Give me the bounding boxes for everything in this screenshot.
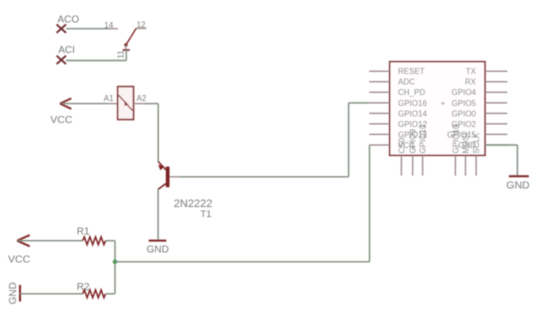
wire GND pin to ground horizontal — [485, 144, 517, 146]
ground symbol (transistor) — [149, 240, 167, 242]
svg-text:12: 12 — [137, 21, 146, 30]
relay K1 pin A1 — [107, 103, 118, 105]
svg-text:+: + — [441, 99, 446, 108]
svg-text:2N2222: 2N2222 — [174, 198, 213, 210]
svg-text:GPIO10: GPIO10 — [419, 124, 428, 153]
module U1 bottom pin stubs — [401, 155, 476, 175]
module U1 left pin stubs — [369, 71, 390, 145]
relay K1 coil diagonal — [119, 95, 133, 110]
connector pin X1 (ACO) — [57, 24, 66, 32]
svg-text:11: 11 — [117, 50, 126, 59]
svg-text:R1: R1 — [77, 227, 90, 238]
wire net ACI horizontal — [66, 60, 126, 62]
wire to GPIO16 pin — [349, 102, 370, 104]
svg-text:MOSI: MOSI — [462, 133, 471, 153]
svg-text:GND: GND — [8, 282, 19, 304]
wire net ACO — [66, 28, 107, 30]
wire VCC to R1 — [18, 240, 83, 242]
resistor R1 zigzag — [83, 237, 106, 245]
switch S1 common stub — [125, 45, 127, 50]
svg-text:GPIO5: GPIO5 — [452, 99, 477, 108]
transistor T1 collector lead — [158, 162, 166, 170]
wire base to GPIO16 horizontal — [180, 176, 349, 178]
wire R1 to node — [106, 240, 115, 242]
relay K1 pin A2 — [134, 103, 144, 105]
svg-text:GPIO10: GPIO10 — [451, 124, 460, 153]
svg-text:GND: GND — [506, 179, 530, 191]
wire net ACI vertical — [125, 50, 127, 61]
svg-text:VCC: VCC — [8, 253, 31, 265]
svg-text:ADC: ADC — [398, 78, 415, 87]
wire R2 to node — [106, 293, 115, 295]
relay K1 coil arrow — [124, 101, 128, 105]
wire A2 to collector vertical — [157, 104, 159, 162]
switch S1 pin 14 — [107, 28, 118, 30]
wire base to GPIO16 vertical — [348, 103, 350, 177]
switch S1 pivot junction — [124, 43, 127, 46]
ground symbol (module) — [509, 175, 529, 177]
wire node to VCC pin vertical — [369, 145, 371, 262]
supply VCC arrow (relay) — [60, 98, 71, 109]
wire emitter to ground — [157, 189, 159, 240]
switch S1 common T-bar — [123, 49, 130, 51]
module U1 box — [390, 62, 485, 156]
svg-text:GND: GND — [147, 245, 169, 256]
wire GND pin to ground vertical — [516, 145, 518, 176]
wire node vertical — [114, 241, 116, 294]
switch S1 arm — [126, 29, 136, 46]
wire GND to R2 — [20, 293, 83, 295]
svg-text:GPIO14: GPIO14 — [398, 109, 427, 118]
switch S1 pin 12 — [136, 27, 147, 29]
svg-text:CS0: CS0 — [397, 137, 406, 153]
ground symbol (divider, rotated) — [19, 285, 21, 302]
wire VCC to relay A1 — [62, 103, 108, 105]
svg-text:GPIO0: GPIO0 — [452, 109, 477, 118]
transistor T1 collector arrow — [158, 165, 164, 171]
svg-text:14: 14 — [104, 21, 113, 30]
svg-text:RESET: RESET — [398, 67, 425, 76]
module U1 right pin stubs — [485, 71, 507, 145]
supply VCC arrow (divider) — [17, 235, 30, 246]
svg-text:GPIO9: GPIO9 — [409, 128, 418, 153]
svg-text:ACO: ACO — [58, 14, 80, 25]
svg-text:A1: A1 — [104, 94, 114, 103]
svg-text:GPIO4: GPIO4 — [452, 88, 477, 97]
svg-text:ACI: ACI — [58, 45, 75, 56]
transistor T1 base bar — [166, 167, 170, 188]
junction dot node — [113, 260, 118, 265]
svg-text:RX: RX — [465, 78, 477, 87]
svg-text:TX: TX — [466, 67, 477, 76]
svg-text:T1: T1 — [200, 209, 211, 220]
svg-text:A2: A2 — [137, 94, 147, 103]
transistor T1 base pin — [170, 176, 181, 178]
transistor T1 emitter lead — [158, 184, 166, 190]
wire A2 to collector horizontal — [144, 103, 158, 105]
svg-text:SCLK: SCLK — [472, 132, 481, 154]
wire node to VCC pin horizontal — [115, 261, 370, 263]
svg-text:GPIO16: GPIO16 — [398, 99, 427, 108]
relay K1 coil box — [118, 87, 134, 120]
resistor R2 zigzag — [83, 290, 106, 298]
connector pin X2 (ACI) — [57, 56, 66, 64]
svg-text:CH_PD: CH_PD — [398, 88, 425, 97]
svg-text:VCC: VCC — [50, 114, 73, 126]
